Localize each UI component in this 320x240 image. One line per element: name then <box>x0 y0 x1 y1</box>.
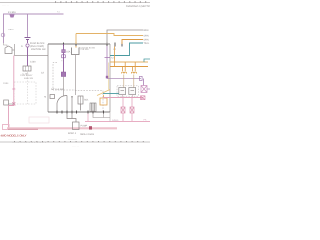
top border rule <box>0 2 150 4</box>
hatch resistor block <box>90 103 96 112</box>
wire: generator to box (gray) <box>12 44 48 56</box>
svg-text:M: M <box>44 96 46 99</box>
top rule tick text <box>55 2 86 4</box>
svg-text:. . . . . .: . . . . . . <box>2 5 9 7</box>
svg-text:PUMP: PUMP <box>81 125 88 128</box>
wire: battery to switch (purple) <box>27 40 29 43</box>
fuse F3 <box>62 55 66 58</box>
relay inner marks <box>121 90 125 92</box>
label block left of box <box>30 42 45 48</box>
svg-text:FUSE BLOCK: FUSE BLOCK <box>30 42 45 45</box>
orange drop pair 1 <box>122 67 124 72</box>
purple riser to X-box <box>143 79 145 86</box>
relay box 2 <box>129 88 136 95</box>
contact dot <box>71 96 73 98</box>
solenoid switch box <box>78 96 83 104</box>
purple tag <box>140 76 143 80</box>
dashed drop from connector <box>27 72 29 104</box>
gray drop from box corner <box>109 112 111 122</box>
connector box bottom-left (pink) <box>3 125 10 130</box>
svg-text:————: ———— <box>68 139 78 141</box>
bottom device box <box>73 122 80 130</box>
svg-text:G104: G104 <box>3 82 9 85</box>
svg-text:B1 B2 B3 B4 B5: B1 B2 B3 B4 B5 <box>79 47 96 50</box>
svg-text:C204 8 WAY: C204 8 WAY <box>20 74 33 77</box>
wire: pink down-left drop <box>9 104 14 128</box>
svg-text:6C6C 4: 6C6C 4 <box>68 132 77 135</box>
wire: switch down to connector (purple) <box>27 48 29 67</box>
svg-text:—▪—: —▪— <box>8 28 14 31</box>
relay bottom stubs <box>121 95 123 98</box>
svg-text:0606-4 DIAG: 0606-4 DIAG <box>80 133 94 136</box>
svg-text:IGNITION SW: IGNITION SW <box>31 48 46 51</box>
purple junction blob <box>106 76 108 79</box>
relay coil component (purple) <box>61 72 65 77</box>
svg-text:ORN: ORN <box>144 35 149 38</box>
breaker U component <box>72 48 80 55</box>
small component M1 <box>50 95 55 99</box>
wire: orange bus 2 right <box>110 66 148 68</box>
main component box bottom edge <box>48 111 110 113</box>
svg-text:DIAGRAM 4 (SECTION): DIAGRAM 4 (SECTION) <box>126 5 150 8</box>
wire: pink bottom harness <box>85 121 150 123</box>
pink riser from pin <box>87 114 89 122</box>
junction square on harness <box>89 126 92 129</box>
connector hooks pair 2 <box>131 72 136 74</box>
wire: teal lead <box>110 43 143 56</box>
generator/alternator component <box>5 46 12 54</box>
purple drop right of box <box>106 46 108 79</box>
svg-text:C100: C100 <box>30 61 36 64</box>
inner dashed sub-box <box>53 63 75 91</box>
dashed sub-system box left <box>14 82 36 104</box>
orange lead 1 riser <box>75 34 77 45</box>
wire solenoid to pin <box>80 104 82 111</box>
wire: orange lead 2 <box>122 40 143 45</box>
relay box 1 <box>119 88 126 95</box>
connector hooks pair 1 <box>121 72 126 74</box>
pink tick <box>12 88 15 90</box>
wire: purple bus lower right <box>107 78 141 80</box>
wire: branch vertical to battery (lavender) <box>27 14 29 37</box>
svg-text:TEAL: TEAL <box>144 42 150 45</box>
orange diagonal jumper <box>97 90 110 96</box>
bottom edge connector pins <box>57 111 104 114</box>
svg-text:15A: 15A <box>66 51 71 54</box>
pink end component <box>141 96 146 100</box>
inner dashed divider right <box>75 91 103 113</box>
pale yellow riser inside right edge <box>108 63 110 90</box>
svg-text:. .. . .. .. . .. . ..: . .. . .. .. . .. . .. .. . .. . .. .. .… <box>12 142 46 144</box>
relay leads down <box>123 75 125 88</box>
purple stub right edge <box>147 88 150 90</box>
teal stub right edge <box>144 59 150 62</box>
wire: orange lead 1 <box>76 34 143 36</box>
switch pivot drop <box>56 103 58 111</box>
wire: gray drop from breaker <box>75 55 77 96</box>
svg-text:. . . . . .: . . . . . . <box>72 146 79 148</box>
dashed enclosure <box>117 86 139 96</box>
wire: teal lower bus <box>103 93 119 95</box>
pink solenoid 2 <box>130 107 134 113</box>
solenoid inner line <box>80 96 82 104</box>
wire: gray continuation to bottom pin <box>63 77 65 97</box>
wire: ground link horizontal (gray) <box>8 103 14 105</box>
wire: gray lead to right label (G) <box>107 30 143 44</box>
svg-text:(ENG COMP): (ENG COMP) <box>30 45 44 48</box>
pink stubs to lower harness <box>122 113 124 122</box>
svg-text:▪ ▪: ▪ ▪ <box>62 61 64 63</box>
pink X junction <box>12 102 15 105</box>
wire: top feed horizontal (lavender) <box>4 14 64 43</box>
ground block G1 <box>4 100 9 105</box>
bottom rule tick dashes <box>14 141 146 143</box>
orange component box <box>100 98 107 105</box>
svg-text:BRN: BRN <box>144 29 149 32</box>
svg-text:4WD MODELS ONLY: 4WD MODELS ONLY <box>1 135 27 138</box>
orange stub into comp <box>103 95 105 98</box>
pink drop 2 <box>131 98 133 108</box>
wire: orange bus 1 right <box>110 61 148 63</box>
top rule tick dashes <box>55 1 149 3</box>
contact drop 1 <box>66 96 68 111</box>
purple X-box component <box>141 86 147 93</box>
connector circle on left wire <box>1 33 5 37</box>
top edge connector pins <box>64 43 123 47</box>
connector block C1 <box>23 66 31 71</box>
fusible link F1 on top wire <box>10 15 15 18</box>
faint relay box above bottom <box>29 117 49 123</box>
connector pins <box>25 66 27 71</box>
orange stub at top pin <box>75 46 77 48</box>
svg-text:SOL: SOL <box>84 99 89 102</box>
wire: corner into generator box <box>4 43 8 47</box>
wire: generator pink drop <box>13 56 15 105</box>
ignition switch S1 <box>26 44 29 47</box>
long pink harness wire bottom <box>7 127 117 129</box>
main component box top edge <box>48 43 110 45</box>
svg-text:ORN: ORN <box>144 39 149 42</box>
pink solenoid 1 <box>121 107 125 113</box>
orange drop pair 2 <box>132 67 134 72</box>
svg-text:4WD SW: 4WD SW <box>24 77 34 80</box>
svg-text:F1 30A: F1 30A <box>8 11 16 14</box>
wire: pink lower bus <box>103 97 143 99</box>
drop pin 72 <box>71 114 73 119</box>
main component box left edge <box>47 44 49 112</box>
bottom rule <box>0 141 150 143</box>
gray L below hatch box <box>93 114 110 118</box>
battery symbol B1 <box>25 38 31 40</box>
bottom centre wires from pins <box>67 114 76 123</box>
pink drop 1 <box>122 98 124 108</box>
contact drop 2 <box>71 98 73 111</box>
fuse F2 <box>62 50 66 53</box>
dark segment on harness <box>8 128 38 130</box>
main component box right edge <box>109 44 111 112</box>
svg-text:S4WD: S4WD <box>112 119 119 122</box>
switch arc <box>57 96 67 104</box>
svg-text:A/T 4×4 SW: A/T 4×4 SW <box>51 88 64 91</box>
purple cross tick <box>105 57 111 59</box>
orange feed riser from pin <box>114 47 116 67</box>
wire: main purple drop inside box <box>63 44 65 72</box>
stub below orange comp pin <box>103 114 105 118</box>
